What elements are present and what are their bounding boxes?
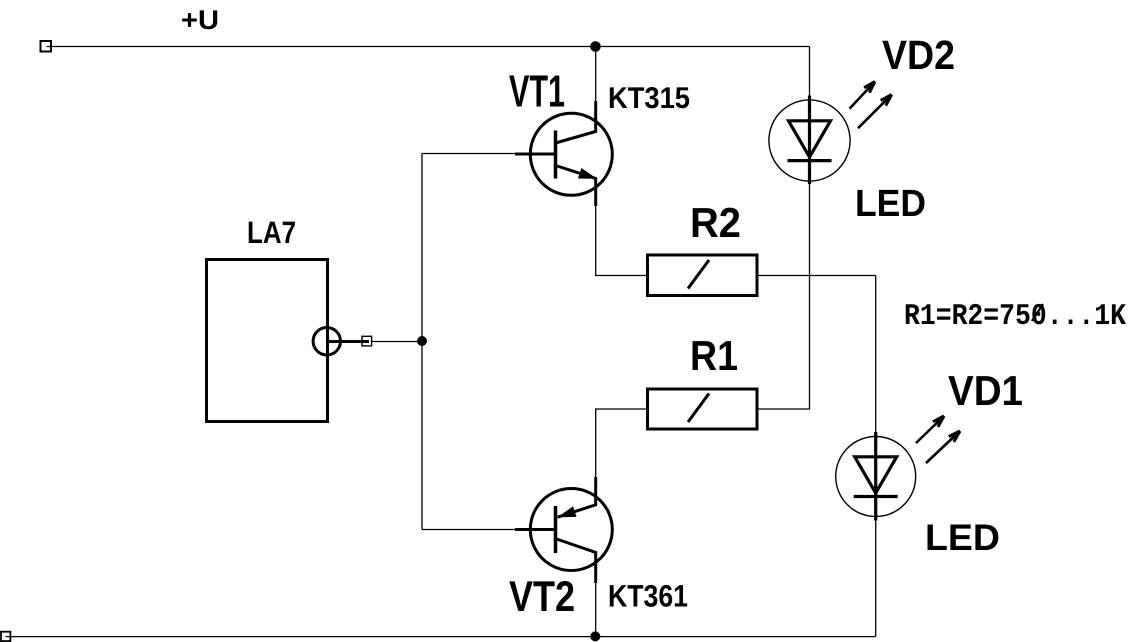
wire top +U rail	[47, 46, 810, 48]
transistor VT1 (KT315 NPN)	[515, 101, 612, 206]
VD2 light arrows	[850, 82, 892, 129]
junction dot on +U rail at VT1 collector	[590, 41, 601, 52]
LED VD1	[836, 432, 916, 521]
wire VD2 anode drop from rail	[809, 47, 811, 97]
svg-text:R1=R2=750...1K: R1=R2=750...1K	[904, 300, 1126, 334]
svg-text:LA7: LA7	[247, 215, 296, 250]
slashed zero mark	[1032, 304, 1043, 321]
svg-text:R2: R2	[690, 199, 741, 246]
svg-text:VD1: VD1	[948, 367, 1023, 414]
svg-text:KT315: KT315	[608, 82, 690, 115]
svg-text:KT361: KT361	[608, 579, 688, 614]
wire base net to VT2 base	[422, 529, 516, 531]
svg-text:LED: LED	[855, 183, 926, 225]
wire drop to VD1 anode	[875, 276, 877, 434]
junction dot on bottom rail at VT2 collector	[590, 631, 600, 641]
wire R1 left lead down to VT2 emitter	[596, 409, 647, 477]
IC LA7 box	[207, 260, 328, 422]
wire LA7 output to base net	[372, 341, 423, 343]
transistor VT2 (KT361 PNP)	[515, 477, 612, 583]
junction dot base net	[417, 336, 427, 346]
wire VT1 collector to rail	[595, 47, 597, 102]
LA7 inverter circle	[313, 328, 340, 355]
LA7 output lead	[327, 340, 369, 343]
wire VT1 emitter down and right to R2	[596, 206, 647, 276]
wire VD1 cathode to bottom rail	[875, 520, 877, 637]
resistor R2	[648, 255, 758, 296]
svg-text:VD2: VD2	[882, 32, 955, 78]
wire base net to VT1 base	[422, 153, 516, 155]
wire R2 right lead to VD1 column	[757, 275, 876, 277]
VD1 light arrows	[916, 416, 960, 463]
LED VD2	[769, 96, 850, 185]
svg-text:VT2: VT2	[509, 573, 575, 621]
LA7 output pin square	[362, 336, 372, 346]
wire base net vertical	[421, 154, 423, 530]
svg-text:R1: R1	[690, 332, 738, 379]
svg-text:VT1: VT1	[509, 66, 565, 117]
svg-text:+U: +U	[181, 5, 219, 35]
terminal square +U (top-left)	[41, 41, 52, 52]
resistor R1	[648, 389, 758, 429]
svg-text:LED: LED	[925, 517, 1000, 558]
wire bottom rail	[6, 636, 876, 638]
terminal square bottom-left	[1, 632, 10, 641]
wire VD2 cathode down and left to R1	[757, 184, 810, 409]
wire VT2 collector to bottom rail	[595, 583, 597, 637]
